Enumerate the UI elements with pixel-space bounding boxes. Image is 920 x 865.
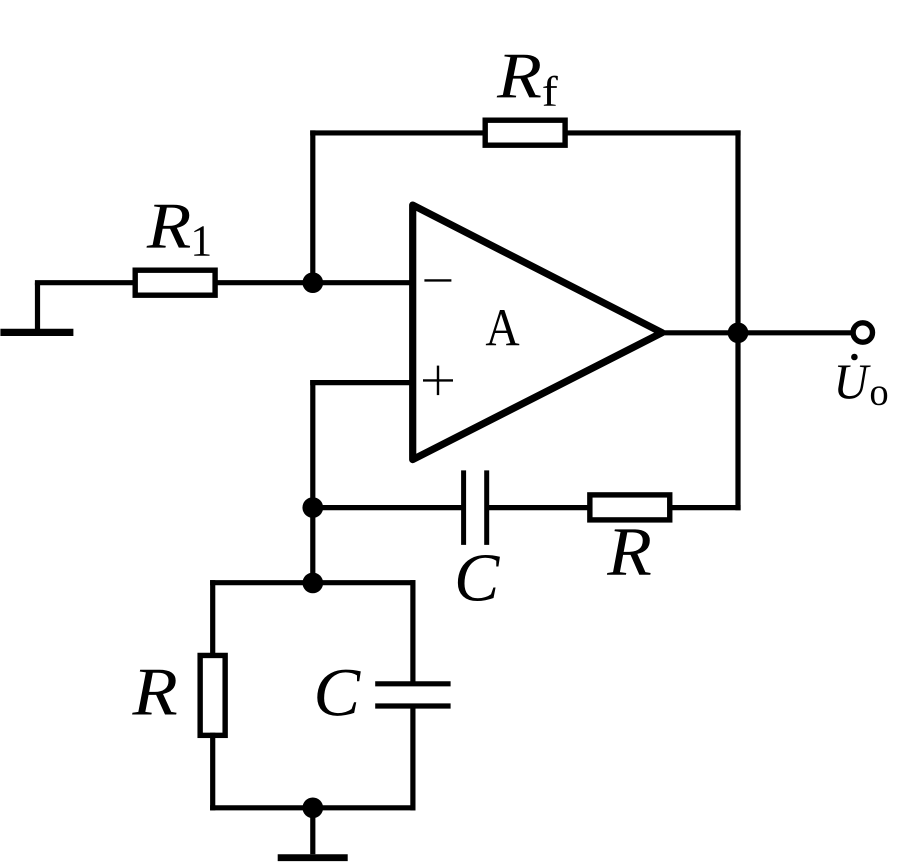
wire: top rail to Rf (313, 130, 485, 135)
wire: left branch lower (210, 735, 215, 807)
capacitor C (series, plates) (464, 470, 487, 545)
wire: R1 to inverting input (218, 280, 413, 285)
wire: capacitor C to resistor R (series) (489, 505, 590, 510)
op-amp non-inverting input marker (plus) (423, 366, 453, 396)
node: output junction (728, 322, 749, 343)
wire: op-amp output (662, 330, 852, 335)
node: parallel network bottom junction (302, 797, 323, 818)
resistor R (series, body) (590, 495, 670, 520)
wire: resistor R to output column (672, 505, 738, 510)
node: series branch junction (302, 497, 323, 518)
wire: parallel network top rail (213, 580, 413, 585)
label A (op-amp) (486, 310, 519, 345)
wire: left branch upper (210, 583, 215, 656)
resistor R (parallel, body) (200, 655, 225, 735)
wire: parallel network bottom rail (213, 805, 413, 810)
wire: non-inverting column down to parallel network (310, 383, 315, 583)
label C (series) (458, 555, 500, 601)
resistor R1 (body) (135, 270, 215, 295)
resistor Rf (body) (485, 120, 565, 145)
node: inverting input junction (302, 272, 323, 293)
label Rf (497, 55, 558, 106)
wire: ground to R1 (38, 280, 136, 285)
label R1 (147, 205, 210, 256)
wire: non-inverting input (313, 380, 413, 385)
ground (bottom) (278, 808, 348, 858)
wire: right branch lower (410, 708, 415, 807)
op-amp A (triangle body) (413, 205, 662, 460)
node: parallel network top junction (302, 573, 323, 594)
label C (parallel) (317, 670, 360, 716)
wire: junction up to feedback rail (310, 133, 315, 283)
wire: junction to capacitor C (series) (313, 505, 461, 510)
wire: Rf to output column (568, 130, 738, 135)
wire: output column (feedback down to output node, then to series R) (735, 133, 740, 508)
wire: right branch upper (410, 583, 415, 682)
label R (series) (607, 529, 651, 574)
label R (parallel) (132, 670, 176, 715)
label U_o (output voltage) (838, 354, 887, 406)
terminal: output (open circle) (853, 323, 872, 342)
op-amp inverting input marker (minus) (424, 279, 451, 281)
ground (input reference, left) (0, 283, 73, 333)
capacitor C (parallel, plates) (375, 684, 450, 706)
